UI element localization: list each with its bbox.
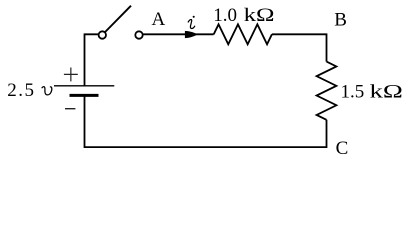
wire: resistor R1 to node B corner — [272, 34, 327, 61]
switch S1 contact circle — [135, 31, 142, 38]
battery unit label v — [42, 87, 52, 95]
resistor R2 zigzag 1.5 kΩ — [317, 62, 337, 120]
battery minus sign — [65, 108, 75, 110]
svg-text:A: A — [152, 9, 166, 30]
wire: node A to resistor R1 — [143, 33, 214, 35]
current label i — [188, 16, 195, 29]
current arrow i — [185, 31, 198, 38]
svg-text:2.5: 2.5 — [7, 80, 35, 101]
wire: left branch from battery + up and across to switch pivot — [85, 34, 99, 86]
svg-text:C: C — [336, 138, 349, 159]
battery plus sign — [64, 68, 78, 82]
switch S1 pivot circle — [99, 31, 106, 38]
svg-text:B: B — [334, 9, 347, 30]
svg-text:1.5kΩ: 1.5kΩ — [341, 81, 403, 102]
resistor R1 zigzag 1.0 kΩ — [214, 24, 272, 44]
battery V1 negative plate (short thick) — [70, 94, 99, 97]
switch S1 lever (open blade) — [105, 6, 131, 32]
wire: resistor R2 to node C and bottom return to battery — [85, 95, 327, 147]
battery V1 positive plate (long) — [54, 85, 114, 87]
svg-text:1.0kΩ: 1.0kΩ — [213, 5, 274, 26]
